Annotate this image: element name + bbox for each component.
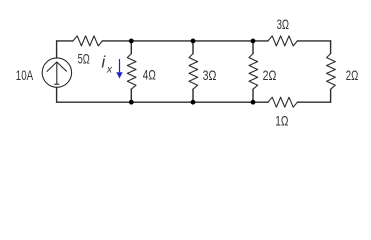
svg-text:5Ω: 5Ω [78,50,90,66]
resistor 2ohm mid zigzag [249,54,258,90]
resistor 2ohm right zigzag [327,54,336,90]
resistor 4ohm zigzag [127,54,136,90]
wire bottom-right to corner [297,101,330,103]
node dot bottom 2 [191,100,196,105]
wire branch 4ohm top lead [130,41,132,54]
svg-text:3Ω: 3Ω [277,16,289,32]
node dot bottom 3 [251,100,256,105]
wire top rail [102,40,268,42]
svg-text:2Ω: 2Ω [263,67,277,83]
wire branch 3ohm bottom lead [192,89,194,102]
svg-text:4Ω: 4Ω [143,66,156,82]
svg-text:x: x [106,64,113,75]
svg-text:2Ω: 2Ω [346,67,359,83]
current source arrow shaft [56,62,58,84]
resistor 3ohm top-right zigzag [268,36,297,46]
svg-text:1Ω: 1Ω [275,113,288,129]
node dot bottom 1 [129,100,134,105]
current source I1 circle [42,58,71,87]
node dot top 2 [191,39,196,44]
wire right branch top lead [330,41,332,54]
wire branch 4ohm bottom lead [130,89,132,102]
current source arrow tail bar [55,83,59,85]
wire bottom rail [57,101,268,103]
wire right branch bottom lead [330,89,332,102]
resistor 3ohm mid zigzag [189,54,198,90]
node dot top 3 [251,39,256,44]
svg-text:i: i [101,53,106,72]
node dot top 1 [129,39,134,44]
current source arrow chevron [47,62,67,71]
wire top-left horizontal [57,40,73,42]
arrow ix shaft [119,59,120,72]
wire branch 3ohm top lead [192,41,194,54]
svg-text:10A: 10A [16,67,34,83]
resistor 1ohm bottom-right zigzag [268,97,297,107]
svg-text:3Ω: 3Ω [203,67,217,83]
arrow ix head [116,72,122,78]
wire branch 2ohm bottom lead [252,89,254,102]
wire left branch bottom [56,87,58,102]
resistor 5ohm zigzag [73,36,102,46]
wire left branch top [56,41,58,58]
wire branch 2ohm top lead [252,41,254,54]
wire top-right to corner [297,40,330,42]
